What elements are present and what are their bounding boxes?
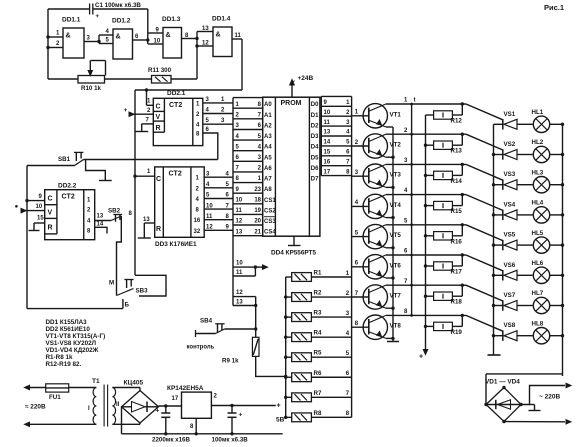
node net13 xyxy=(254,304,257,307)
svg-text:10: 10 xyxy=(324,110,331,116)
wire bus left vertical xyxy=(47,9,49,79)
wire R12 right xyxy=(452,114,462,116)
mains arrow top xyxy=(25,385,30,389)
wire VS1 gate xyxy=(466,104,503,120)
wire VT6 base xyxy=(352,266,369,268)
svg-text:DD2.2: DD2.2 xyxy=(58,183,77,190)
svg-text:23: 23 xyxy=(254,187,261,193)
svg-text:VD1-VD4 КД202Ж: VD1-VD4 КД202Ж xyxy=(46,347,99,354)
svg-text:19: 19 xyxy=(254,208,261,214)
svg-text:&: & xyxy=(116,34,121,41)
svg-text:12: 12 xyxy=(236,219,243,225)
arrow net10 supply xyxy=(255,266,262,268)
svg-text:A1: A1 xyxy=(264,113,272,119)
wire VT4 base xyxy=(352,205,369,207)
resistor R16 xyxy=(434,232,453,240)
wire clock to DD2.1 C xyxy=(146,90,148,105)
ground DD2.1 R xyxy=(142,123,154,125)
wire VT6 emitter xyxy=(386,277,393,279)
svg-text:CS4: CS4 xyxy=(264,230,276,236)
svg-text:A0: A0 xyxy=(264,102,272,108)
wire R5 right xyxy=(311,356,351,358)
wire VT8 emitter xyxy=(386,337,393,339)
wire R6 right xyxy=(311,376,351,378)
counter DD2.2 box xyxy=(45,190,95,240)
wire R14 left xyxy=(426,174,434,176)
resistor R18 xyxy=(434,292,453,300)
wire DD1.1 pin1 xyxy=(48,36,63,38)
wire VS2 gate xyxy=(466,134,503,150)
svg-text:&: & xyxy=(66,33,71,40)
diode in bridge xyxy=(498,400,511,409)
logic gate DD1.4 xyxy=(213,27,232,57)
mains arrow bottom xyxy=(25,422,30,426)
wire HL bus to bridge xyxy=(486,373,563,375)
diode in KC405 xyxy=(132,402,146,413)
node R4 bus xyxy=(284,335,287,338)
svg-text:V: V xyxy=(156,114,161,121)
ground rail PSU xyxy=(122,433,283,435)
logic gate DD1.1 xyxy=(63,28,84,58)
wire VT5 emitter xyxy=(386,247,393,249)
svg-text:SB3: SB3 xyxy=(136,288,149,295)
wire R2 right xyxy=(311,296,351,298)
collector bus vertical xyxy=(411,104,413,315)
thyristor VS4 xyxy=(504,210,517,220)
svg-text:VT5: VT5 xyxy=(390,232,402,239)
wire R16 right xyxy=(452,235,462,237)
wire DD1.2 out pin6 xyxy=(133,39,148,41)
wire reg out xyxy=(211,405,275,407)
svg-text:VT7: VT7 xyxy=(390,293,402,300)
transistor VT2 xyxy=(363,134,387,158)
svg-text:R6: R6 xyxy=(314,370,322,377)
wire R3 left xyxy=(286,316,292,318)
node R15 bus xyxy=(424,204,427,207)
wire DD1.3 out pin8 xyxy=(182,38,198,40)
wire top feedback rail xyxy=(48,8,89,10)
svg-text:17: 17 xyxy=(324,169,331,175)
lamp HL2 xyxy=(533,146,549,162)
svg-text:VS5: VS5 xyxy=(504,232,516,239)
node R11 junction xyxy=(195,44,198,47)
wire R13 left xyxy=(426,144,434,146)
svg-text:КР142ЕН5А: КР142ЕН5А xyxy=(167,385,204,392)
svg-text:DD1.4: DD1.4 xyxy=(212,16,231,23)
svg-text:11: 11 xyxy=(206,214,213,220)
svg-text:VT1-VT8 КТ315(А-Г): VT1-VT8 КТ315(А-Г) xyxy=(46,333,106,340)
svg-text:+: + xyxy=(239,412,243,419)
svg-text:14: 14 xyxy=(324,140,331,146)
wire left bus down xyxy=(26,166,28,309)
wire mains top xyxy=(30,387,46,389)
wire cap to corner xyxy=(93,8,148,10)
capacitor C2 xyxy=(165,406,167,413)
svg-text:VS8: VS8 xyxy=(504,322,516,329)
svg-text:R10 1k: R10 1k xyxy=(81,85,102,92)
wire VT5 collector rail xyxy=(386,224,466,226)
svg-text:13: 13 xyxy=(236,300,243,306)
wire DD1.3 pin9 xyxy=(148,32,163,34)
svg-text:+: + xyxy=(419,354,423,361)
node VT8 rail bus xyxy=(410,314,413,317)
wire VT2 emitter xyxy=(386,156,393,158)
node R13 bus xyxy=(424,144,427,147)
node VT6 rail bus xyxy=(410,254,413,257)
svg-text:R2: R2 xyxy=(314,290,322,297)
wire DD2.2 pin14 xyxy=(95,227,107,233)
svg-text:10: 10 xyxy=(206,203,213,209)
wire VT7 collector rail xyxy=(386,284,466,286)
svg-text:11: 11 xyxy=(324,120,331,126)
logic gate DD1.3 xyxy=(163,28,182,59)
wire VS3 gate xyxy=(466,164,503,180)
node gate2-3 xyxy=(146,38,149,41)
node VS7 anode xyxy=(492,304,495,307)
wire clock down xyxy=(134,90,136,275)
wire DD1.3 pin10 xyxy=(148,43,163,45)
wire SB4 left xyxy=(196,333,216,335)
svg-text:VT6: VT6 xyxy=(390,262,402,269)
svg-text:HL3: HL3 xyxy=(532,169,544,176)
node R3 bus xyxy=(284,315,287,318)
thyristor VS8 xyxy=(504,331,517,341)
node net10 xyxy=(254,265,257,268)
node bridge right xyxy=(519,403,522,406)
wire DD3 pin5 net6 xyxy=(204,198,233,200)
connector column left edge xyxy=(232,98,234,306)
lamp HL5 xyxy=(533,237,549,253)
wire VT1 emitter xyxy=(386,126,393,128)
node R8 bus xyxy=(284,416,287,419)
svg-text:DD2 К561ИЕ10: DD2 К561ИЕ10 xyxy=(46,326,91,333)
svg-text:≈ 220В: ≈ 220В xyxy=(25,404,46,411)
thyristor VS2 xyxy=(504,150,517,160)
resistor R8 xyxy=(292,413,312,422)
svg-text:10: 10 xyxy=(154,39,161,45)
node VS6 anode xyxy=(492,274,495,277)
wire mains bottom xyxy=(30,423,97,425)
transistor VT4 xyxy=(363,194,387,218)
wire DD1.1 out pin3 xyxy=(84,41,99,43)
svg-text:R3: R3 xyxy=(314,310,322,317)
svg-text:11: 11 xyxy=(236,208,243,214)
svg-text:15: 15 xyxy=(37,216,44,222)
node bridge top xyxy=(502,386,505,389)
svg-text:10: 10 xyxy=(36,204,43,210)
svg-text:R18: R18 xyxy=(451,299,463,306)
svg-text:+: + xyxy=(277,403,281,410)
transformer T1 core xyxy=(103,385,105,427)
wire DD1.4 out pin11 xyxy=(232,38,242,40)
svg-text:R4: R4 xyxy=(314,330,322,337)
wire R8 right xyxy=(311,416,351,418)
svg-text:DD1 К155ЛА3: DD1 К155ЛА3 xyxy=(46,319,88,326)
wire VS8 gate xyxy=(466,315,503,331)
svg-text:R12-R19 82.: R12-R19 82. xyxy=(46,361,82,368)
wire DD1.2 pin4 xyxy=(99,34,113,36)
svg-text:HL1: HL1 xyxy=(532,109,544,116)
node VT8 R drop xyxy=(461,314,464,317)
wire secondary top xyxy=(112,387,140,389)
wire VS4 gate xyxy=(466,195,503,211)
svg-text:DD4 КР556РТ5: DD4 КР556РТ5 xyxy=(271,250,316,257)
node VT3 R drop xyxy=(461,163,464,166)
resistor R19 xyxy=(434,322,453,330)
transistor VT6 xyxy=(363,255,387,279)
wire net13 down xyxy=(255,306,257,338)
svg-text:CS2: CS2 xyxy=(264,208,276,214)
wire SB4 right xyxy=(225,328,256,330)
svg-text:C: C xyxy=(156,176,161,183)
svg-text:C: C xyxy=(156,104,161,111)
svg-text:Рис.1: Рис.1 xyxy=(544,3,564,12)
svg-text:16: 16 xyxy=(194,218,201,224)
logic gate DD1.2 xyxy=(113,29,133,59)
transistor VT5 xyxy=(363,224,387,248)
supply arrow + xyxy=(423,350,427,355)
svg-text:+24В: +24В xyxy=(298,75,314,82)
svg-text:D1: D1 xyxy=(311,113,319,119)
svg-text:A5: A5 xyxy=(264,155,272,161)
node R14 bus xyxy=(424,174,427,177)
wire bus to R10 xyxy=(48,78,78,80)
svg-text:CT2: CT2 xyxy=(169,102,182,109)
svg-text:13: 13 xyxy=(324,130,331,136)
wire net11 xyxy=(233,275,255,277)
HL bus xyxy=(562,124,564,376)
svg-text:CT2: CT2 xyxy=(62,194,75,201)
wire net12 xyxy=(233,296,256,298)
emitter bus xyxy=(392,127,394,342)
wire net10 xyxy=(233,266,255,268)
svg-text:10: 10 xyxy=(236,198,243,204)
node HL5 bus xyxy=(561,243,564,246)
button SB3 post xyxy=(130,280,132,287)
data cell column xyxy=(320,96,322,175)
wire R19 left xyxy=(426,325,434,327)
wire R7 left xyxy=(286,396,292,398)
svg-text:II: II xyxy=(116,402,120,408)
node R2 bus xyxy=(284,295,287,298)
node VT4 R drop xyxy=(461,193,464,196)
terminal SB4 left xyxy=(195,330,197,337)
lamp HL1 xyxy=(533,116,549,132)
resistor R6 xyxy=(292,373,312,382)
bridge KC405 xyxy=(122,391,159,424)
svg-text:V: V xyxy=(48,210,53,217)
svg-text:R12: R12 xyxy=(451,118,463,125)
node DD2.2 C bus xyxy=(25,199,28,202)
svg-text:PROM: PROM xyxy=(281,100,302,107)
lamp HL7 xyxy=(533,297,549,313)
supply +24V xyxy=(291,84,293,97)
svg-text:М: М xyxy=(109,280,114,287)
wire VS6 gate xyxy=(466,255,503,271)
wire R13 right xyxy=(452,144,462,146)
svg-text:+: + xyxy=(96,14,100,20)
fuse FU1 xyxy=(46,384,69,392)
VS anode bus xyxy=(493,124,495,355)
wire R5 left xyxy=(286,356,292,358)
svg-text:КЦ405: КЦ405 xyxy=(124,380,144,387)
ground bridge xyxy=(530,404,535,406)
node DD1.1 pin2 xyxy=(46,46,49,49)
svg-text:HL7: HL7 xyxy=(532,290,544,297)
resistor R9 xyxy=(252,337,259,356)
wire DD3 pin4 net5 xyxy=(204,187,233,189)
node HL6 bus xyxy=(561,274,564,277)
svg-text:100мк х6.3В: 100мк х6.3В xyxy=(212,436,249,443)
node gate1-2 xyxy=(97,40,100,43)
wire VS7 gate xyxy=(466,285,503,301)
svg-text:CT2: CT2 xyxy=(169,171,182,178)
svg-text:A7: A7 xyxy=(264,177,272,183)
wire VT2 base xyxy=(352,145,369,147)
svg-text:+: + xyxy=(156,408,160,415)
resistor R12 xyxy=(434,111,453,119)
wire R4 left xyxy=(286,336,292,338)
resistor R4 xyxy=(292,333,312,342)
PROM DD4 box xyxy=(263,97,320,236)
svg-text:DD1.3: DD1.3 xyxy=(162,16,181,23)
net vertical bus xyxy=(351,96,353,417)
wire VT1 collector rail xyxy=(386,103,466,105)
svg-text:R14: R14 xyxy=(451,178,463,185)
wire R7 right xyxy=(311,396,351,398)
svg-text:VS2: VS2 xyxy=(504,141,516,148)
wire DD1.4 pin13 xyxy=(197,31,213,33)
node gate3-4 xyxy=(195,37,198,40)
wire R17 right xyxy=(452,265,462,267)
svg-text:13: 13 xyxy=(97,214,104,220)
wire DD2.1 out5 xyxy=(203,123,233,125)
node R19 bus xyxy=(424,325,427,328)
wire R17 left xyxy=(426,265,434,267)
input arrow DD2.2 V xyxy=(15,205,18,208)
thyristor VS5 xyxy=(504,240,517,250)
capacitor C1 xyxy=(89,4,91,15)
svg-text:HL2: HL2 xyxy=(532,139,544,146)
pin reg 8 xyxy=(195,418,197,434)
wire DD1.1 pin2 xyxy=(48,47,63,49)
node VS4 anode xyxy=(492,213,495,216)
wire R18 left xyxy=(426,295,434,297)
node HL8 bus xyxy=(561,334,564,337)
wire VT8 collector rail xyxy=(386,314,466,316)
node VS3 anode xyxy=(492,183,495,186)
svg-text:R1: R1 xyxy=(314,270,322,277)
wire R8 left xyxy=(286,416,292,418)
svg-text:R: R xyxy=(48,225,53,232)
wire R11 right xyxy=(171,78,197,80)
wire SB3 right xyxy=(135,275,166,296)
svg-text:A3: A3 xyxy=(264,134,272,140)
node VT5 R drop xyxy=(461,223,464,226)
node VS5 anode xyxy=(492,243,495,246)
node bridge left xyxy=(484,403,487,406)
node clock branch DD2.1 xyxy=(145,88,148,91)
svg-text:32: 32 xyxy=(194,229,201,235)
svg-text:D2: D2 xyxy=(311,123,319,129)
wire feedback drop xyxy=(147,9,149,44)
svg-text:VS6: VS6 xyxy=(504,262,516,269)
capacitor C3 xyxy=(231,406,233,414)
svg-text:DD1.2: DD1.2 xyxy=(112,18,131,25)
svg-text:R15: R15 xyxy=(451,208,463,215)
resistor R11 xyxy=(152,76,172,84)
wire DD2.1 out6 xyxy=(203,133,218,160)
wire clock from DD1.4 xyxy=(241,39,243,90)
node HL4 bus xyxy=(561,213,564,216)
svg-text:14: 14 xyxy=(97,221,104,227)
transistor VT1 xyxy=(363,104,387,128)
wire R12 left xyxy=(426,114,434,116)
svg-text:20: 20 xyxy=(254,219,261,225)
svg-text:A2: A2 xyxy=(264,123,272,129)
counter DD3 box xyxy=(155,167,205,237)
node HL2 bus xyxy=(561,153,564,156)
svg-text:R8: R8 xyxy=(314,410,322,417)
svg-text:R16: R16 xyxy=(451,238,463,245)
node VT1 rail bus xyxy=(410,103,413,106)
svg-text:A4: A4 xyxy=(264,145,272,151)
svg-text:SB1: SB1 xyxy=(58,156,71,163)
resistor R15 xyxy=(434,201,453,209)
lamp HL3 xyxy=(533,177,549,193)
svg-text:HL6: HL6 xyxy=(532,260,544,267)
button SB3 xyxy=(124,279,133,281)
lamp HL4 xyxy=(533,207,549,223)
resistor R17 xyxy=(434,262,453,270)
svg-text:C1 100мк х6.3В: C1 100мк х6.3В xyxy=(95,2,141,9)
node HL1 bus xyxy=(561,123,564,126)
svg-text:CS3: CS3 xyxy=(264,219,276,225)
svg-text:D3: D3 xyxy=(311,134,319,140)
svg-text:10: 10 xyxy=(236,261,243,267)
wire R3 right xyxy=(311,316,351,318)
resistor R2 xyxy=(292,293,312,302)
svg-text:R5: R5 xyxy=(314,350,322,357)
svg-text:VS3: VS3 xyxy=(504,171,516,178)
svg-text:VT4: VT4 xyxy=(390,202,402,209)
svg-text:13: 13 xyxy=(236,229,243,235)
node C3 xyxy=(230,404,233,407)
lamp HL8 xyxy=(533,328,549,344)
svg-text:C: C xyxy=(48,196,53,203)
resistor R5 xyxy=(292,353,312,362)
wire net13 xyxy=(233,305,256,307)
svg-text:VT8: VT8 xyxy=(390,323,402,330)
svg-text:R11 300: R11 300 xyxy=(148,67,172,74)
transformer T1 secondary xyxy=(112,388,115,425)
wire VT5 base xyxy=(352,236,369,238)
resistor R14 xyxy=(434,171,453,179)
wire DD3 pin3 net4 xyxy=(204,176,233,178)
wire DD3 pin10 net7 xyxy=(204,208,233,210)
node VT1 R drop xyxy=(461,102,464,105)
node VT7 R drop xyxy=(461,284,464,287)
node VT7 rail bus xyxy=(410,284,413,287)
node R9 join xyxy=(284,375,287,378)
wire R4 right xyxy=(311,336,351,338)
ground DD2.2 R xyxy=(34,222,45,224)
wire DD2.2 pin13 xyxy=(95,220,111,222)
thyristor VS3 xyxy=(504,180,517,190)
node VS8 anode xyxy=(492,334,495,337)
svg-text:15: 15 xyxy=(324,150,331,156)
node VT2 R drop xyxy=(461,133,464,136)
